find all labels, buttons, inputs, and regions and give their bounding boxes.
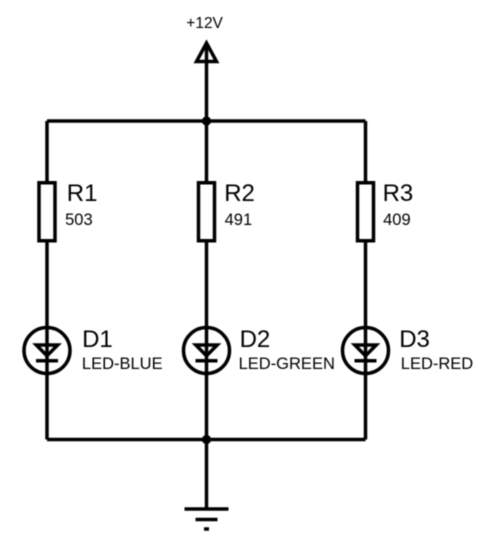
wire power stem xyxy=(205,43,209,121)
junction top node xyxy=(202,116,211,125)
power symbol +12V arrow xyxy=(197,43,217,62)
svg-text:LED-RED: LED-RED xyxy=(401,355,474,373)
wire middle branch xyxy=(205,121,209,440)
svg-text:R1: R1 xyxy=(67,180,98,207)
junction bottom node xyxy=(202,435,211,444)
svg-text:+12V: +12V xyxy=(186,15,223,32)
LED D3 xyxy=(343,328,389,374)
resistor R1 xyxy=(39,183,55,241)
svg-text:D2: D2 xyxy=(240,326,271,353)
svg-text:D1: D1 xyxy=(82,326,113,353)
svg-text:R2: R2 xyxy=(224,180,255,207)
ground xyxy=(185,509,229,529)
resistor R3 xyxy=(358,183,374,241)
wire right branch xyxy=(364,121,368,440)
resistor R2 xyxy=(199,183,215,241)
wire ground stem xyxy=(205,440,209,510)
svg-text:LED-BLUE: LED-BLUE xyxy=(82,355,163,373)
svg-text:503: 503 xyxy=(65,211,93,229)
svg-text:D3: D3 xyxy=(399,326,430,353)
svg-text:409: 409 xyxy=(383,211,411,229)
wire left branch xyxy=(45,121,49,440)
svg-text:491: 491 xyxy=(225,211,253,229)
svg-text:LED-GREEN: LED-GREEN xyxy=(239,355,335,373)
LED D1 xyxy=(24,328,70,374)
svg-text:R3: R3 xyxy=(383,180,414,207)
wire bottom rail xyxy=(47,438,366,442)
LED D2 xyxy=(184,328,230,374)
wire top rail xyxy=(47,119,366,123)
